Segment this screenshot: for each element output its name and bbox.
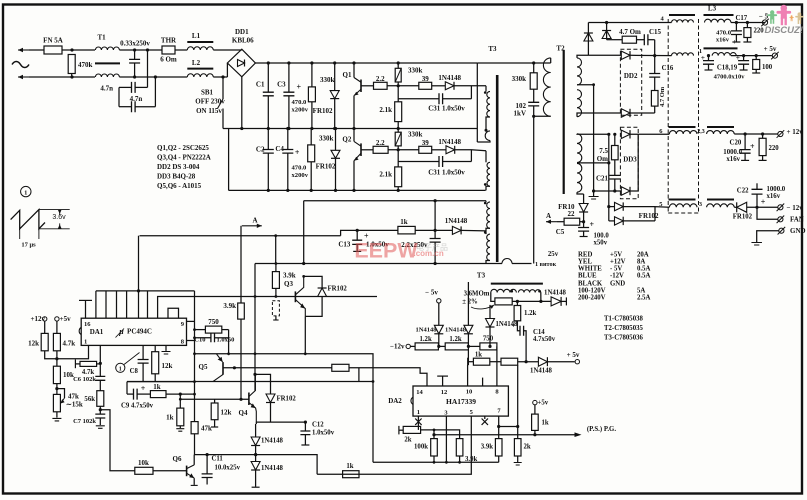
- wire pin 8: [187, 340, 195, 342]
- resistor 330k (bleeder lower): [308, 129, 334, 191]
- wire: [175, 49, 187, 51]
- svg-text:10.0x25v: 10.0x25v: [215, 465, 241, 472]
- svg-text:4.7 Om: 4.7 Om: [659, 86, 666, 107]
- node A arrow out: [241, 216, 262, 235]
- wire: [240, 319, 242, 399]
- node: [179, 393, 182, 396]
- svg-text:Q2: Q2: [342, 136, 351, 144]
- capacitor C4 470.0x200v: [275, 129, 308, 191]
- svg-text:0.5A: 0.5A: [637, 266, 650, 273]
- transformer T2 core: [563, 50, 565, 194]
- svg-text:1k: 1k: [166, 414, 174, 422]
- resistor 100 (+5v load): [752, 56, 773, 73]
- svg-text:470k: 470k: [78, 61, 93, 69]
- node: [137, 289, 140, 292]
- wire: [557, 221, 564, 223]
- label 3.6MOm: [462, 291, 490, 306]
- wire bridge left corner to AC: [226, 63, 228, 77]
- wire: [518, 361, 539, 363]
- wire: [118, 87, 120, 106]
- diode 1N4148 (aux): [544, 289, 567, 306]
- winding C phase dot: [484, 183, 487, 186]
- wire pin10 feed: [467, 350, 470, 386]
- svg-text:C6 102k: C6 102k: [73, 376, 96, 383]
- svg-text:x16v: x16v: [716, 37, 730, 44]
- svg-text:+5V: +5V: [610, 252, 622, 259]
- resistor (sense b): [501, 358, 518, 365]
- watermark Discuz text: [764, 25, 803, 36]
- watermark Discuz figures: [767, 5, 803, 25]
- capacitor C13 1.0x50v: [338, 230, 389, 251]
- svg-text:FN 5A: FN 5A: [43, 37, 63, 45]
- terminal +12v: [777, 128, 804, 138]
- wire-end bar (2k): [399, 426, 403, 435]
- wire bridge bottom corner down: [241, 77, 243, 129]
- resistor (feed): [332, 364, 349, 371]
- node: [761, 132, 764, 135]
- node: [99, 362, 102, 365]
- svg-text:8: 8: [495, 388, 499, 395]
- wire A-net 3.9k branch: [240, 236, 242, 303]
- svg-text:RED: RED: [578, 252, 592, 259]
- pin label 2,3: [697, 129, 705, 135]
- wire: [637, 39, 645, 41]
- node: [434, 199, 437, 202]
- resistor 1.2k (aux): [514, 301, 536, 320]
- wire: [29, 76, 95, 78]
- node: [239, 398, 242, 401]
- capacitor 102 1kV: [514, 89, 540, 117]
- node: [742, 54, 745, 57]
- resistor 10k (Q6 base): [135, 459, 187, 474]
- wire +310V top rail: [255, 62, 477, 64]
- svg-text:SB1: SB1: [201, 89, 214, 97]
- svg-text:FR102: FR102: [639, 212, 659, 220]
- wire: [56, 351, 58, 366]
- node: [397, 148, 400, 151]
- svg-text:+: +: [750, 142, 755, 151]
- svg-text:+: +: [297, 83, 302, 92]
- node: [735, 21, 749, 24]
- winding D phase dot upper: [484, 202, 487, 205]
- wire: [461, 229, 486, 232]
- wire pin 9: [187, 320, 195, 322]
- terminal -5v: [425, 289, 441, 326]
- capacitor C7 102k: [73, 406, 105, 428]
- svg-text:x200v: x200v: [292, 107, 309, 114]
- terminal GND: [778, 227, 806, 235]
- svg-text:1 виток: 1 виток: [535, 261, 557, 268]
- svg-text:(P.S.) P.G.: (P.S.) P.G.: [587, 426, 616, 433]
- svg-text:5A: 5A: [637, 288, 645, 295]
- wire T2 sec lower top: [577, 133, 609, 136]
- node: [437, 345, 440, 348]
- node: [254, 453, 257, 456]
- capacitor C20 1000.0x16v: [723, 134, 755, 163]
- wire: [734, 133, 778, 135]
- svg-text:− 12v: − 12v: [787, 204, 804, 212]
- wire: [29, 49, 44, 51]
- node: [304, 421, 307, 424]
- svg-text:DD3: DD3: [623, 156, 637, 164]
- diode DD3 upper: [621, 130, 669, 138]
- pin 6 stub: [482, 416, 488, 425]
- transformer part list: [604, 316, 643, 342]
- transformer T3 left rail: [476, 63, 478, 142]
- wire: [490, 361, 501, 363]
- svg-text:1k: 1k: [400, 218, 408, 226]
- svg-text:Om: Om: [597, 155, 608, 163]
- svg-text:Q5: Q5: [199, 363, 208, 371]
- terminal -12v: [777, 204, 804, 212]
- wire: [455, 150, 486, 151]
- capacitor C12 1.0x50v: [300, 422, 334, 446]
- svg-text:220: 220: [769, 145, 780, 152]
- pin label 3: [699, 202, 702, 208]
- svg-text:12: 12: [441, 389, 448, 396]
- svg-text:+: +: [736, 53, 740, 62]
- svg-text:+: +: [295, 148, 300, 157]
- transformer T2 sec lower A: [577, 134, 582, 163]
- svg-text:1kV: 1kV: [514, 110, 526, 118]
- wire: [45, 345, 89, 358]
- capacitor C17 470.0x16v: [716, 15, 748, 46]
- node: [70, 75, 73, 78]
- inductor L1: [187, 32, 213, 50]
- transformer T2 sec upper B: [577, 90, 582, 117]
- capacitor C19: [736, 53, 749, 70]
- wire Q2 base: [361, 149, 373, 151]
- node: [516, 300, 543, 303]
- svg-text:7: 7: [497, 408, 501, 415]
- wire: [275, 236, 277, 264]
- choke winding 6 (second): [707, 127, 735, 134]
- svg-text:1.0x50v: 1.0x50v: [312, 430, 335, 437]
- wire C13 row jog: [341, 230, 398, 235]
- rectifier DD3 dashed box: [620, 127, 638, 199]
- svg-text:1: 1: [417, 409, 420, 416]
- svg-text:750: 750: [208, 318, 219, 326]
- svg-text:FR102: FR102: [328, 286, 348, 293]
- svg-text:100k: 100k: [414, 444, 428, 451]
- node: [55, 387, 58, 390]
- arrow PG: [575, 426, 617, 437]
- resistor 750: [195, 318, 229, 333]
- svg-text:C21: C21: [596, 175, 609, 183]
- svg-text:+: +: [761, 198, 766, 207]
- wire T2 CT upper: [577, 84, 594, 86]
- svg-text:C22: C22: [737, 188, 749, 195]
- resistor 330k (snubber): [512, 63, 538, 89]
- pin stub: [147, 291, 149, 318]
- svg-text:4.7k: 4.7k: [63, 340, 76, 348]
- transistor Q1 2SC2625: [343, 63, 361, 129]
- svg-text:0.5A: 0.5A: [637, 273, 650, 280]
- svg-text:3: 3: [699, 202, 702, 208]
- svg-text:GND: GND: [610, 281, 625, 288]
- terminal -12v: [390, 343, 415, 351]
- terminal +5v: [55, 315, 71, 333]
- resistor 1.2k (-12v a): [415, 336, 438, 350]
- choke winding 5 (first): [669, 200, 698, 208]
- diode FR102 (lower): [316, 129, 340, 191]
- wire: [119, 76, 187, 78]
- svg-text:1k: 1k: [346, 463, 353, 470]
- wire A-net horizontal: [140, 235, 341, 237]
- wire: [387, 85, 419, 87]
- wire: [126, 382, 128, 395]
- svg-text:L1: L1: [192, 32, 201, 40]
- pin 7 row: [499, 416, 518, 426]
- svg-text:L2: L2: [192, 59, 201, 67]
- transformer T3 label (aux): [477, 272, 486, 280]
- wire: [580, 221, 584, 223]
- wire: [62, 49, 95, 51]
- wire colour table: [578, 252, 650, 302]
- svg-text:+: +: [141, 384, 146, 393]
- transformer T3 label: [488, 45, 497, 53]
- node: [304, 352, 307, 355]
- svg-text:200-240V: 200-240V: [578, 295, 606, 302]
- svg-text:1.2k: 1.2k: [524, 310, 536, 317]
- AC line terminal arrow (bottom): [18, 75, 29, 79]
- label C18,19: [717, 65, 738, 72]
- resistor 3.9k (Q3 base): [272, 264, 295, 297]
- aux winding phase dot B: [538, 290, 541, 293]
- choke winding 1 (second): [704, 48, 738, 55]
- svg-text:C7 102k: C7 102k: [73, 418, 96, 425]
- inductor L2: [187, 59, 213, 77]
- wire: [213, 76, 227, 78]
- wire: [213, 49, 242, 51]
- wire: [734, 206, 736, 208]
- svg-text:100-120V: 100-120V: [578, 288, 606, 295]
- svg-text:1k: 1k: [153, 383, 161, 391]
- svg-text:1N4148: 1N4148: [438, 138, 461, 146]
- wire sense row Y1: [373, 461, 499, 463]
- svg-text:DISCUZ!: DISCUZ!: [764, 25, 803, 36]
- resistor 750 (sense): [480, 336, 497, 350]
- diode DD2 lower: [621, 109, 654, 117]
- resistor 3.9k (feedback): [223, 302, 244, 319]
- resistor 2.1k (Q1): [379, 86, 401, 129]
- svg-text:C14: C14: [533, 329, 545, 336]
- svg-text:39: 39: [422, 75, 430, 83]
- node: [240, 127, 243, 130]
- node: [613, 133, 616, 136]
- pin label 4: [661, 16, 665, 23]
- svg-text:-12V: -12V: [610, 273, 624, 280]
- svg-text:16: 16: [84, 321, 91, 328]
- transformer T3 winding D lower: [486, 231, 490, 263]
- svg-text:4.7k: 4.7k: [82, 369, 94, 376]
- svg-text:BLACK: BLACK: [578, 281, 603, 288]
- node: [592, 83, 595, 86]
- svg-text:3.6v: 3.6v: [52, 214, 66, 221]
- svg-text:电子产品: 电子产品: [416, 242, 448, 252]
- node: [334, 127, 337, 192]
- wire: [222, 77, 224, 99]
- svg-text:C1: C1: [256, 81, 265, 89]
- svg-text:330k: 330k: [408, 131, 423, 139]
- label 3.6v: [52, 214, 66, 221]
- wire: [454, 85, 486, 87]
- diode 1N4148 (Q1 drive): [438, 74, 461, 90]
- resistor 56k: [84, 380, 103, 406]
- svg-text:Q5,Q6 - A1015: Q5,Q6 - A1015: [157, 182, 202, 190]
- choke winding 1 (first): [672, 53, 694, 56]
- svg-text:C3: C3: [277, 81, 286, 89]
- node: [206, 453, 258, 456]
- transistor Q2 2SC2625: [342, 129, 361, 191]
- wire DA1 top bus: [96, 290, 195, 292]
- winding A phase dot: [484, 91, 487, 94]
- resistor 330k (bleeder upper): [308, 63, 334, 129]
- wire: [349, 368, 427, 386]
- AC source symbol ~: [12, 62, 29, 68]
- label 25v: [548, 251, 559, 258]
- ground: [751, 243, 762, 246]
- wire Q1 base: [361, 85, 374, 87]
- svg-text:BLUE: BLUE: [578, 273, 597, 280]
- svg-text:1: 1: [84, 339, 87, 346]
- resistor 4.7k (fb): [75, 360, 100, 377]
- transistor Q6: [173, 455, 198, 486]
- node: [267, 61, 270, 130]
- svg-text:14: 14: [416, 389, 423, 396]
- wire: [228, 330, 230, 354]
- node: [253, 373, 256, 376]
- resistor 39 (Q1 drive): [419, 75, 432, 89]
- svg-text:T1: T1: [98, 34, 107, 42]
- capacitor C22 1000.0x16v: [737, 183, 786, 207]
- wire-end bar: [468, 358, 474, 366]
- resistor 4.7 Om (snubber): [619, 28, 641, 43]
- resistor 39 (Q2 drive): [419, 139, 432, 153]
- wire DA1 second bus: [158, 297, 377, 319]
- wire: [147, 50, 149, 87]
- pin 12 stub: [437, 376, 448, 386]
- terminal +12v: [31, 315, 47, 333]
- capacitor 2.2x250v: [401, 201, 440, 264]
- node: [755, 54, 758, 57]
- svg-text:20A: 20A: [637, 252, 649, 259]
- svg-text:Q1,Q2 - 2SC2625: Q1,Q2 - 2SC2625: [157, 144, 209, 152]
- fuse FN 5A: [43, 37, 63, 55]
- svg-text:FAN: FAN: [790, 216, 804, 224]
- capacitor C31 1.0x50v (Q1): [398, 93, 471, 112]
- node: [352, 189, 355, 192]
- resistor 330k (Q1 bias): [395, 63, 422, 86]
- svg-text:2.5A: 2.5A: [637, 295, 650, 302]
- terminal +5v (sense): [567, 351, 580, 364]
- svg-text:C20: C20: [730, 140, 742, 147]
- pin 16 antenna stub: [79, 300, 92, 318]
- choke winding 4 (first): [669, 15, 695, 23]
- wire top secondary bus: [588, 22, 671, 24]
- svg-text:L3: L3: [708, 5, 717, 13]
- svg-text:330k: 330k: [319, 134, 334, 142]
- wire Q5 base: [223, 367, 241, 369]
- wire CT upper ground: [593, 85, 595, 197]
- node A arrow: [546, 212, 557, 224]
- svg-text:EEPW: EEPW: [354, 239, 418, 263]
- resistor 47k ~15k trimmer: [53, 389, 82, 412]
- wire: [432, 85, 446, 87]
- resistor 3.9k (a): [456, 439, 477, 463]
- node: [485, 129, 488, 132]
- svg-text:39: 39: [422, 139, 430, 147]
- transformer T2 label: [556, 45, 565, 53]
- node: [525, 360, 528, 363]
- wire row (error amp): [127, 381, 373, 383]
- diode 1N4148 (column a): [251, 422, 283, 461]
- svg-text:17 μs: 17 μs: [21, 242, 36, 249]
- aux winding phase dot A: [511, 290, 514, 293]
- wire: [747, 206, 778, 208]
- svg-text:C2: C2: [256, 146, 265, 154]
- svg-text:Q1: Q1: [343, 71, 352, 79]
- wire to 10k base row: [100, 410, 135, 471]
- pin stub: [95, 291, 97, 318]
- svg-text:KBL06: KBL06: [232, 37, 254, 45]
- node: [99, 408, 102, 411]
- diode 1N4148 (column b): [251, 462, 283, 488]
- node: [613, 189, 616, 192]
- dashed component (Q3 bias): [272, 301, 279, 320]
- wire Q3 net vertical: [254, 264, 256, 391]
- svg-text:+: +: [733, 37, 737, 46]
- wire: [433, 430, 435, 435]
- wire: [166, 393, 195, 395]
- resistor 12k (supply): [28, 333, 48, 350]
- IC DA1 uPC494C body: [79, 318, 186, 345]
- svg-text:2k: 2k: [404, 437, 411, 444]
- svg-text:1.2k: 1.2k: [449, 336, 461, 343]
- node: [433, 461, 461, 464]
- resistor 12k (osc): [152, 345, 173, 381]
- node: [755, 206, 758, 209]
- capacitor C5 100.0x50v: [556, 220, 610, 247]
- svg-text:± 2%: ± 2%: [462, 299, 478, 306]
- wire Q6 collector row: [194, 455, 317, 475]
- resistor 4.7 Om (C16 snubber): [651, 77, 666, 113]
- terminal +5v (PG pullup): [533, 400, 549, 415]
- wire: [303, 201, 305, 264]
- wire top feedback row: [304, 200, 486, 202]
- svg-text:HA17339: HA17339: [446, 397, 476, 406]
- diode FR102 (Q4 clamp): [266, 394, 296, 422]
- marker circle 1 (waveform): [21, 186, 31, 196]
- winding D phase dot lower: [484, 231, 487, 234]
- svg-text:25v: 25v: [548, 251, 559, 258]
- transformer T3 winding D upper (feedback): [486, 201, 490, 232]
- node: [467, 345, 470, 348]
- svg-text:1000.0: 1000.0: [723, 149, 742, 156]
- label 4700.0x10v: [714, 74, 746, 81]
- node: [193, 352, 196, 395]
- marker circle 1 (pin5): [116, 353, 140, 373]
- pin label 1: [699, 48, 702, 55]
- node: [221, 75, 224, 78]
- svg-text:T3: T3: [488, 45, 497, 53]
- svg-text:− 5v: − 5v: [425, 289, 438, 297]
- svg-text:+ 12v: + 12v: [787, 128, 804, 136]
- wire: [606, 23, 608, 40]
- ground (DA1): [162, 345, 171, 354]
- svg-text:+: +: [701, 53, 705, 62]
- wire T2 sec top: [577, 55, 588, 58]
